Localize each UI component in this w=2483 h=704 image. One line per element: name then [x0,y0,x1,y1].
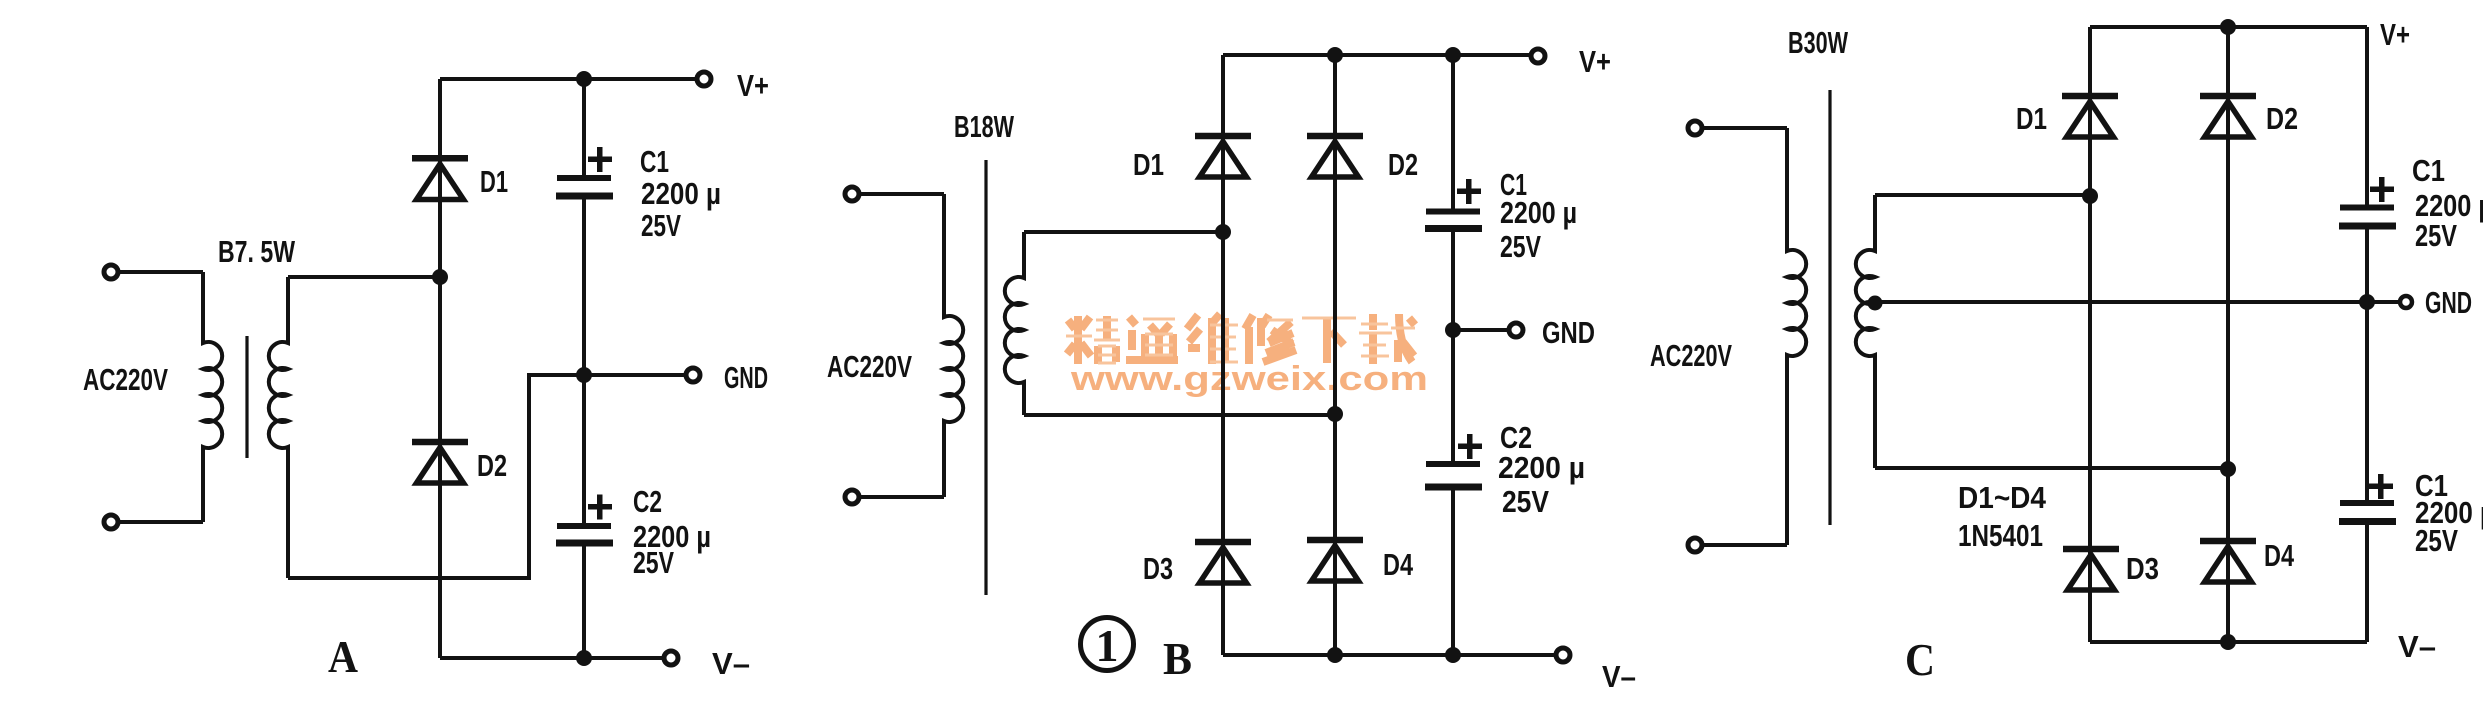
wire GND stub A [584,373,687,377]
capacitor C2 A [556,523,613,547]
svg-text:2200 µ: 2200 µ [641,176,721,211]
watermark char tong [1126,317,1178,360]
wire C1 column upper A [582,79,586,175]
terminal V- B [1556,648,1570,662]
wire input bottom C [1702,543,1787,547]
node junction rail-C1 B [1445,47,1461,63]
svg-text:GND: GND [724,360,768,395]
wire C1 upper B [1451,55,1455,209]
wire C1-C2 column B [1451,232,1455,461]
wire bottom rail C [2090,640,2367,644]
transformer T-A core [245,336,248,458]
svg-text:B30W: B30W [1788,25,1849,60]
svg-text:1N5401: 1N5401 [1958,518,2043,553]
node center tap C [1868,296,1883,311]
node junction GND-capacitors C [2359,294,2375,310]
transformer T-A primary winding [203,272,222,522]
svg-text:D2: D2 [477,448,507,483]
polarity plus C2 B [1458,434,1482,459]
svg-text:V–: V– [2398,629,2436,664]
wire input bottom B [859,495,944,499]
wire GND stub B [1453,328,1510,332]
wire secondary bottom C [1875,466,2228,470]
wire C1-GND column A [582,200,586,524]
transformer T-B secondary winding [1005,232,1024,415]
svg-text:D4: D4 [2264,538,2295,573]
terminal V- A [664,651,678,665]
svg-text:C1: C1 [2412,153,2445,188]
wire right edge upper C [2365,27,2369,205]
wire input bottom A [118,520,203,524]
wire diode column A [438,79,442,658]
svg-text:D1: D1 [2016,101,2047,136]
diode D2 C [2200,93,2256,137]
wire input top C [1702,126,1787,130]
diode D4 B [1307,537,1363,581]
terminal input bottom B [845,490,859,504]
wire left diode column B [1221,55,1225,655]
svg-text:25V: 25V [1500,229,1541,264]
node junction rail-D4 C [2220,634,2236,650]
transformer T-B primary winding [944,194,963,497]
wire right diode column C [2226,27,2230,642]
transformer T-C secondary winding [1856,195,1875,468]
wire top rail C [2090,25,2367,29]
diode D4 C [2200,538,2256,582]
watermark char zai [1359,314,1415,364]
wire bottom rail B [1223,653,1557,657]
watermark char wei [1187,314,1238,364]
svg-text:D2: D2 [1388,147,1418,182]
node junction GND B [1445,322,1461,338]
wire center tap to GND C [1875,300,2400,304]
transformer T-B core [984,160,987,595]
wire top rail A [440,77,698,81]
terminal GND A [686,368,700,382]
wire right diode column B [1333,55,1337,655]
terminal GND C [2400,296,2412,308]
svg-text:AC220V: AC220V [83,362,168,397]
svg-text:D1: D1 [480,164,508,199]
watermark char jing [1066,316,1120,364]
wire right edge middle C [2365,230,2369,501]
svg-text:D2: D2 [2266,101,2298,136]
wire secondary bottom return A [288,375,584,578]
wire input top A [118,270,203,274]
transformer T-C core [1828,90,1831,525]
terminal input bottom C [1688,538,1702,552]
node junction rail-D4 B [1327,647,1343,663]
svg-text:AC220V: AC220V [1650,338,1732,373]
diode D1 B [1195,133,1251,177]
svg-text:D1~D4: D1~D4 [1958,480,2047,515]
terminal input top A [104,265,118,279]
transformer T-C primary winding [1787,128,1806,545]
svg-text:V–: V– [712,646,750,681]
diode D1 A [412,155,468,200]
svg-text:V+: V+ [737,68,769,103]
node junction secondary-diodes A [432,269,448,285]
diode D1 C [2062,93,2118,137]
svg-text:D3: D3 [1143,551,1173,586]
wire top rail B [1223,53,1532,57]
polarity plus C1 bottom C [2369,474,2393,499]
terminal input top B [845,187,859,201]
node junction GND A [576,367,592,383]
svg-text:V+: V+ [1579,44,1611,79]
node junction rail-C2 B [1445,647,1461,663]
svg-text:C1: C1 [640,144,669,179]
wire secondary top B [1024,230,1223,234]
diode D3 B [1195,539,1251,583]
node junction secondary top C [2082,188,2098,204]
svg-text:V+: V+ [2380,17,2410,52]
terminal V+ B [1531,49,1545,63]
node junction C2 bottom A [576,650,592,666]
svg-text:D4: D4 [1383,547,1414,582]
svg-text:D3: D3 [2126,551,2159,586]
diode D2 B [1307,133,1363,177]
svg-text:C2: C2 [633,484,662,519]
polarity plus C1 top C [2370,177,2394,202]
svg-text:25V: 25V [633,545,674,580]
svg-text:25V: 25V [2415,218,2457,253]
svg-text:B7. 5W: B7. 5W [218,234,296,269]
svg-text:GND: GND [2425,285,2472,320]
terminal GND B [1509,323,1523,337]
svg-text:V–: V– [1602,659,1636,694]
wire secondary bottom B [1024,413,1335,417]
node junction secondary top B [1215,224,1231,240]
svg-text:B18W: B18W [954,109,1015,144]
polarity plus C1 A [588,147,612,172]
polarity plus C1 B [1457,179,1481,204]
wire input top B [859,192,944,196]
svg-text:2200 µ: 2200 µ [1500,195,1577,230]
terminal input bottom A [104,515,118,529]
watermark char xia [1302,318,1356,363]
terminal V+ A [697,72,711,86]
terminal input top C [1688,121,1702,135]
transformer T-A secondary winding [269,277,288,578]
capacitor C1 A [556,175,613,200]
svg-text:B: B [1163,633,1192,684]
diode D3 C [2063,546,2119,590]
svg-text:D1: D1 [1133,147,1164,182]
svg-text:25V: 25V [2415,523,2458,558]
capacitor C1 B [1425,209,1482,233]
capacitor C1 top C [2339,205,2396,230]
node junction rail-D2 B [1327,47,1343,63]
node junction secondary bottom B [1327,406,1343,422]
svg-text:www.gzweix.com: www.gzweix.com [1070,360,1428,398]
wire bottom rail A [440,656,665,660]
wire left diode column C [2088,27,2092,642]
svg-text:AC220V: AC220V [827,349,912,384]
node junction secondary bottom C [2220,461,2236,477]
svg-text:C: C [1905,634,1935,685]
svg-text:25V: 25V [641,208,681,243]
wire C2 lower B [1451,491,1455,656]
node junction rail-D2 C [2220,19,2236,35]
svg-text:A: A [328,631,358,682]
polarity plus C2 A [588,495,612,520]
figure number circled 1 [1081,618,1134,672]
capacitor C1 bottom C [2339,500,2396,525]
capacitor C2 B [1425,461,1482,491]
watermark char xiu [1245,315,1296,364]
diode D2 A [412,439,468,483]
wire right edge lower C [2365,525,2369,642]
svg-text:25V: 25V [1502,484,1549,519]
wire C2 lower A [582,547,586,659]
svg-text:1: 1 [1096,620,1119,671]
wire secondary top C [1875,193,2090,197]
svg-text:2200 µ: 2200 µ [1498,450,1585,485]
node junction C1 top A [576,71,592,87]
wire secondary top A [288,275,440,279]
svg-text:GND: GND [1542,315,1595,350]
